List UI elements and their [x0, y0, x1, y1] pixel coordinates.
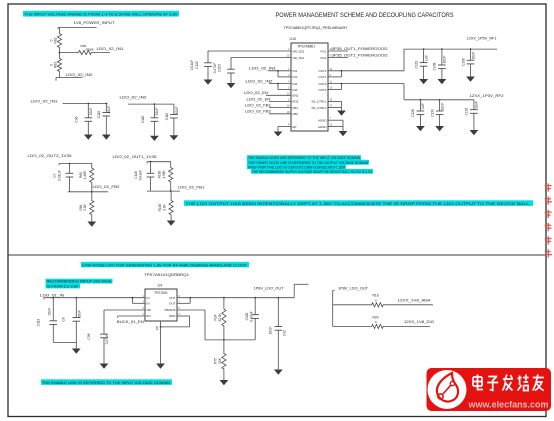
- svg-text:12XX_1V8_DIG: 12XX_1V8_DIG: [404, 320, 434, 324]
- svg-text:3P35_OUT1_POWERGOOD: 3P35_OUT1_POWERGOOD: [332, 47, 389, 51]
- wire 12XX_1P5V_RF1 bus: [404, 48, 497, 50]
- svg-text:LDO_02_IN1: LDO_02_IN1: [249, 67, 276, 71]
- ground SS_CTRL: [341, 108, 343, 111]
- svg-text:R189: R189: [158, 170, 162, 178]
- svg-text:PG1: PG1: [320, 49, 326, 53]
- svg-text:14: 14: [330, 68, 333, 71]
- ground input caps: [75, 342, 77, 348]
- svg-text:0: 0: [49, 39, 53, 41]
- wire LDO_01_IN: [44, 297, 145, 299]
- capacitor C118: [150, 162, 152, 174]
- svg-text:C128: C128: [411, 109, 415, 117]
- svg-text:LDO_02_FB1: LDO_02_FB1: [245, 104, 271, 108]
- svg-text:EN: EN: [147, 314, 151, 318]
- svg-text:0.01UF: 0.01UF: [190, 60, 194, 71]
- wire SS_CTRL2: [328, 107, 342, 109]
- svg-text:IS FROM 2.2-3.6V: IS FROM 2.2-3.6V: [47, 285, 80, 289]
- note: LDO output kept at 1.35V (cyan highlight): [184, 200, 533, 206]
- svg-text:C116: C116: [141, 116, 145, 124]
- svg-text:10UF: 10UF: [471, 52, 475, 60]
- svg-text:12XX_1P5V_RF1: 12XX_1P5V_RF1: [467, 37, 497, 41]
- resistor R59: [78, 50, 93, 54]
- op-amp U10 body: [291, 43, 328, 131]
- svg-text:15: 15: [287, 55, 290, 58]
- svg-text:LDO_01_IN: LDO_01_IN: [40, 293, 65, 297]
- svg-text:8: 8: [330, 74, 332, 77]
- ground C132: [473, 126, 475, 130]
- wire IN1 pin1: [269, 70, 292, 72]
- svg-text:10UF: 10UF: [175, 107, 179, 115]
- note: recommended supply voltage (cyan highlight): [251, 169, 373, 174]
- svg-text:LDO_02_IN2: LDO_02_IN2: [246, 80, 273, 84]
- svg-text:0.47UF: 0.47UF: [105, 334, 109, 345]
- wire OUT1 join: [328, 76, 342, 78]
- svg-text:TPS7A9101QDRBRQ1: TPS7A9101QDRBRQ1: [144, 273, 189, 277]
- svg-text:22UF: 22UF: [47, 308, 51, 316]
- svg-text:THE LDO OUTPUT HAS BEEN INTENT: THE LDO OUTPUT HAS BEEN INTENTIONALLY KE…: [186, 202, 531, 206]
- svg-text:IN1: IN1: [293, 75, 298, 79]
- wire LDO_02_IN1 stub: [93, 52, 111, 54]
- svg-text:17: 17: [330, 105, 333, 108]
- wire ANA left: [333, 304, 371, 306]
- wire AGND1: [328, 119, 343, 121]
- resistor R64: [90, 192, 94, 222]
- svg-text:6: 6: [288, 98, 290, 101]
- svg-text:LDO_02_FB2: LDO_02_FB2: [93, 185, 120, 189]
- svg-text:C132: C132: [465, 107, 469, 115]
- wire FB/SNS: [177, 309, 205, 311]
- svg-text:LDO_02_EN: LDO_02_EN: [244, 91, 268, 95]
- wire 1V8_POWER_INPUT: [58, 27, 97, 29]
- svg-text:THE ENABLE LINES ARE REFERRED: THE ENABLE LINES ARE REFERRED TO THE INP…: [248, 156, 360, 160]
- svg-text:R20: R20: [373, 315, 379, 319]
- svg-text:5: 5: [288, 87, 290, 90]
- svg-text:1.96K: 1.96K: [83, 170, 87, 179]
- resistor R20: [371, 324, 385, 328]
- svg-text:1UF: 1UF: [421, 103, 425, 109]
- ground C129: [423, 76, 425, 79]
- ground R75: [223, 379, 225, 381]
- wire FB1: [269, 107, 291, 109]
- wire PG1: [328, 50, 348, 52]
- svg-text:R59: R59: [81, 44, 87, 48]
- svg-text:TPS7A8801QRTJRQ1_PRELIMINARY: TPS7A8801QRTJRQ1_PRELIMINARY: [284, 26, 349, 30]
- svg-text:IN2: IN2: [293, 88, 298, 92]
- ground R190: [170, 220, 172, 222]
- svg-text:3P35_OUT2_POWERGOOD: 3P35_OUT2_POWERGOOD: [332, 53, 389, 57]
- svg-text:10: 10: [330, 87, 333, 90]
- capacitor C116: [153, 104, 155, 118]
- ground C98: [103, 363, 105, 365]
- wire NR_SS2: [208, 50, 291, 52]
- wire LDO_02_IN1 caps: [63, 103, 108, 105]
- resistor R60: [90, 164, 94, 192]
- svg-text:C129: C129: [414, 60, 418, 68]
- wire IN2 pin4: [269, 83, 291, 85]
- svg-text:C7: C7: [53, 173, 57, 177]
- wire AGND2: [328, 126, 343, 128]
- wire EN1: [266, 94, 291, 96]
- svg-text:0.47UF: 0.47UF: [249, 311, 253, 322]
- svg-text:R75: R75: [214, 358, 218, 364]
- capacitor C138: [441, 49, 443, 65]
- svg-text:2.0K: 2.0K: [83, 203, 87, 210]
- wire U4 IN2 join: [131, 298, 133, 304]
- svg-text:R24: R24: [214, 314, 218, 320]
- svg-text:7: 7: [330, 117, 332, 120]
- svg-text:1P8V_LDO_OUT: 1P8V_LDO_OUT: [338, 286, 369, 290]
- capacitor C98: [103, 333, 105, 335]
- ground EP: [277, 131, 279, 133]
- capacitor C122: [207, 51, 209, 63]
- svg-text:THE POWER GOOD LINE IS REFERRE: THE POWER GOOD LINE IS REFERRED TO THE O…: [248, 161, 368, 165]
- svg-text:SS_CTRL1: SS_CTRL1: [311, 100, 327, 104]
- wire EN2: [269, 100, 291, 102]
- svg-text:0.47UF: 0.47UF: [213, 63, 217, 74]
- resistor R63: [57, 53, 61, 78]
- svg-text:0: 0: [375, 299, 377, 303]
- note: input voltage range (cyan highlight): [23, 11, 179, 17]
- wire NR_SS1: [231, 57, 291, 59]
- wire GND route: [177, 315, 190, 317]
- ground C123: [230, 82, 232, 84]
- wire EP stem: [160, 321, 162, 364]
- svg-text:0R008: 0R008: [86, 48, 94, 52]
- resistor R62: [57, 28, 61, 53]
- svg-text:16: 16: [287, 105, 290, 108]
- svg-text:LDO_02_FB2: LDO_02_FB2: [245, 110, 271, 114]
- watermark red box: [427, 368, 552, 411]
- svg-text:U10: U10: [290, 37, 297, 41]
- svg-text:LDO_02_EN: LDO_02_EN: [247, 97, 271, 101]
- svg-text:POWER MANAGEMENT SCHEME AND DE: POWER MANAGEMENT SCHEME AND DECOUPLING C…: [276, 12, 454, 19]
- ground C128: [419, 123, 421, 127]
- wire OUT join: [189, 298, 191, 304]
- svg-text:10K: 10K: [218, 357, 222, 364]
- wire to R59: [60, 52, 78, 54]
- wire FB junction rail: [205, 339, 255, 341]
- wire FB2: [269, 113, 291, 115]
- svg-text:R190: R190: [158, 203, 162, 211]
- capacitor C119: [173, 104, 175, 114]
- section divider line: [8, 254, 546, 256]
- note: 2.2-3.6V (cyan highlight): [46, 284, 81, 289]
- svg-text:OUT: OUT: [169, 302, 176, 306]
- svg-text:OUT1: OUT1: [318, 69, 326, 73]
- svg-text:IN: IN: [147, 302, 150, 306]
- resistor R18: [371, 303, 385, 307]
- svg-text:C122: C122: [195, 61, 199, 69]
- svg-text:EP: EP: [293, 125, 297, 129]
- wire EN (U4): [118, 315, 145, 317]
- svg-text:R64: R64: [79, 204, 83, 210]
- capacitor C182: [254, 298, 256, 315]
- svg-text:2: 2: [288, 48, 290, 51]
- svg-text:52.3K: 52.3K: [218, 312, 222, 321]
- svg-text:RECOMMENDED INPUT VOLTAGE: RECOMMENDED INPUT VOLTAGE: [47, 280, 113, 284]
- svg-text:C123: C123: [218, 64, 222, 72]
- ground C138: [441, 76, 443, 79]
- capacitor C129: [423, 49, 425, 63]
- svg-text:OUT: OUT: [169, 296, 176, 300]
- wire LDO_02_IN2: [56, 77, 83, 79]
- wire OUT2 bottom: [68, 191, 108, 193]
- svg-text:LDO_02_IN2: LDO_02_IN2: [120, 96, 147, 100]
- wire input cap rail: [53, 341, 76, 343]
- svg-text:12: 12: [330, 124, 333, 127]
- note: low noise LDO (cyan highlight): [81, 262, 249, 267]
- svg-text:VREF FOR THE LDO IS 0.8V.0.8*(: VREF FOR THE LDO IS 0.8V.0.8*(1.96K+2.0K…: [248, 165, 346, 169]
- note: enable lines referenced (cyan highlight): [247, 155, 361, 160]
- svg-text:1.96K: 1.96K: [162, 169, 166, 178]
- svg-text:C115: C115: [97, 111, 101, 119]
- svg-text:NR: NR: [147, 308, 152, 312]
- svg-text:LDO_02_OUT1_1V35: LDO_02_OUT1_1V35: [113, 155, 157, 159]
- svg-text:LDO_02_OUT2_1V35: LDO_02_OUT2_1V35: [28, 154, 72, 158]
- svg-text:LDO_02_FB1: LDO_02_FB1: [178, 185, 205, 189]
- wire OUT1 bottom: [147, 190, 180, 192]
- svg-text:C96: C96: [75, 116, 79, 122]
- ground C115: [105, 131, 107, 135]
- svg-text:1V8_POWER_INPUT: 1V8_POWER_INPUT: [74, 21, 116, 25]
- ground C92: [277, 369, 279, 371]
- resistor R24: [222, 298, 226, 340]
- op-amp U4 body: [145, 289, 177, 321]
- watermark vertical text right edge: [545, 185, 552, 186]
- ground EP (U4): [160, 363, 162, 365]
- svg-text:FB1: FB1: [293, 106, 299, 110]
- svg-text:U4: U4: [158, 284, 163, 288]
- ground C139: [439, 123, 441, 127]
- capacitor C139: [439, 100, 441, 111]
- wire ANA right: [384, 304, 433, 306]
- svg-text:EP: EP: [155, 326, 159, 330]
- svg-text:LDO_02_IN2: LDO_02_IN2: [66, 73, 93, 77]
- svg-text:P: P: [288, 124, 290, 127]
- capacitor C92: [277, 298, 279, 327]
- wire DIG right: [384, 325, 430, 327]
- svg-text:EN1: EN1: [293, 94, 299, 98]
- svg-text:10UF: 10UF: [475, 101, 479, 109]
- watermark logo circle: [428, 370, 467, 409]
- svg-text:AGND: AGND: [318, 119, 328, 123]
- resistor R189: [169, 162, 173, 191]
- wire SS_CTRL1: [328, 100, 342, 102]
- svg-text:FB2: FB2: [293, 112, 299, 116]
- svg-text:C98: C98: [87, 333, 91, 339]
- svg-text:R18: R18: [373, 294, 379, 298]
- note: vref formula (cyan highlight): [247, 164, 346, 169]
- svg-text:22UF: 22UF: [89, 108, 93, 116]
- svg-text:THE RECOMMENDED SUPPLY VOLTAGE: THE RECOMMENDED SUPPLY VOLTAGE NEAR THE …: [252, 170, 373, 174]
- ground R64: [91, 221, 93, 223]
- svg-text:C118: C118: [134, 171, 138, 179]
- svg-text:R63: R63: [53, 62, 57, 68]
- svg-text:C119: C119: [165, 113, 169, 121]
- watermark chinese characters: [473, 375, 483, 390]
- svg-text:BUCK_01_EN: BUCK_01_EN: [117, 320, 144, 324]
- svg-text:LOW NOISE LDO FOR GENERATING 1: LOW NOISE LDO FOR GENERATING 1.8V FOR RF…: [82, 263, 248, 267]
- wire PG2: [328, 57, 348, 59]
- svg-text:20: 20: [287, 92, 290, 95]
- svg-text:10UF: 10UF: [443, 56, 447, 64]
- wire IN2 pin5 join: [277, 84, 279, 90]
- svg-text:TPS7A8801: TPS7A8801: [297, 44, 315, 48]
- wire 12XX_1P3V_RF2 bus: [404, 99, 474, 101]
- svg-text:18: 18: [287, 111, 290, 114]
- svg-text:10UF: 10UF: [77, 310, 81, 318]
- ground C116: [153, 132, 155, 136]
- svg-text:C139: C139: [430, 109, 434, 117]
- svg-text:4: 4: [288, 81, 290, 84]
- capacitor C128: [419, 100, 421, 111]
- resistor R75: [222, 340, 226, 379]
- ground AGND: [342, 127, 344, 132]
- svg-text:www.elecfans.com: www.elecfans.com: [468, 400, 549, 410]
- svg-text:1UF: 1UF: [424, 55, 428, 61]
- svg-text:2.0K: 2.0K: [163, 203, 167, 210]
- svg-text:10UF: 10UF: [440, 103, 444, 111]
- svg-text:10UF: 10UF: [107, 106, 111, 114]
- svg-text:NR_SS1: NR_SS1: [293, 56, 305, 60]
- capacitor C8: [75, 298, 77, 318]
- wire OUT2 join: [328, 89, 342, 91]
- svg-text:TPS7A91: TPS7A91: [154, 291, 168, 295]
- svg-text:12XX_1V8_ANA: 12XX_1V8_ANA: [398, 298, 432, 302]
- svg-text:IN2: IN2: [293, 82, 298, 86]
- svg-text:THE INPUT VOLTAGE RANGE IS FRO: THE INPUT VOLTAGE RANGE IS FROM 1.4 TO 6…: [25, 13, 179, 17]
- wire OUT rail: [177, 297, 294, 299]
- svg-text:0: 0: [49, 64, 53, 66]
- svg-text:R62: R62: [53, 37, 57, 43]
- svg-text:22UF: 22UF: [155, 108, 159, 116]
- ground C122: [207, 79, 209, 81]
- svg-text:C8: C8: [61, 317, 65, 321]
- svg-text:IN: IN: [147, 296, 150, 300]
- capacitor C7: [69, 164, 71, 174]
- ground C96: [87, 131, 89, 135]
- svg-text:GND: GND: [169, 314, 177, 318]
- svg-text:AGND: AGND: [318, 125, 328, 129]
- svg-text:IN1: IN1: [293, 69, 298, 73]
- wire LDO_02_IN2 caps: [128, 103, 174, 105]
- svg-text:0: 0: [375, 320, 377, 324]
- wire EP: [278, 126, 291, 128]
- svg-text:OUT1: OUT1: [318, 75, 326, 79]
- svg-text:NR_SS2: NR_SS2: [293, 49, 305, 53]
- wire OUT2 top: [59, 163, 92, 165]
- svg-text:C113: C113: [36, 319, 40, 327]
- svg-text:C92: C92: [282, 330, 286, 336]
- wire DIG left: [333, 325, 371, 327]
- svg-text:THE ENABLE LINE IS REFERRED TO: THE ENABLE LINE IS REFERRED TO THE INPUT…: [42, 381, 170, 385]
- svg-text:0.01UF: 0.01UF: [139, 170, 143, 181]
- svg-text:LDO_02_IN1: LDO_02_IN1: [97, 47, 124, 51]
- svg-text:C138: C138: [433, 62, 437, 70]
- svg-text:3: 3: [288, 74, 290, 77]
- wire fanout stem: [332, 291, 334, 327]
- svg-text:PG2: PG2: [320, 56, 326, 60]
- wire OUT1 rail: [328, 70, 404, 72]
- resistor R190: [169, 191, 173, 220]
- svg-text:12XX_1P3V_RF2: 12XX_1P3V_RF2: [470, 94, 504, 98]
- svg-text:SS_CTRL2: SS_CTRL2: [311, 106, 327, 110]
- svg-text:FB/SNS: FB/SNS: [165, 308, 176, 312]
- ground C130: [470, 74, 472, 77]
- note: power good line referenced (cyan highlight): [247, 160, 369, 165]
- wire NR: [104, 309, 145, 311]
- capacitor C130: [470, 49, 472, 60]
- svg-text:R60: R60: [79, 172, 83, 178]
- svg-text:0.01UF: 0.01UF: [58, 170, 62, 181]
- capacitor C115: [105, 104, 107, 113]
- ground C119: [173, 132, 175, 135]
- wire 1P8V_LDO_OUT riser: [293, 284, 295, 297]
- capacitor C123: [230, 58, 232, 70]
- wire IN1 pin3 join: [277, 71, 279, 77]
- note: enable line referenced (cyan highlight): [41, 379, 172, 385]
- svg-text:19: 19: [330, 98, 333, 101]
- svg-text:LDO_02_IN1: LDO_02_IN1: [31, 100, 58, 104]
- svg-text:11: 11: [330, 81, 333, 84]
- capacitor C113: [52, 298, 54, 321]
- note: recommended input voltage (cyan highlight): [46, 279, 113, 284]
- svg-text:1P8V_LDO_OUT: 1P8V_LDO_OUT: [254, 286, 285, 290]
- wire OUT2 rail: [328, 83, 404, 85]
- capacitor C96: [87, 104, 89, 118]
- svg-text:OUT2: OUT2: [318, 88, 326, 92]
- svg-text:10UF: 10UF: [268, 327, 272, 335]
- svg-text:C130: C130: [461, 58, 465, 66]
- capacitor C132: [473, 100, 475, 110]
- wire OUT1 top: [147, 161, 171, 163]
- svg-text:OUT2: OUT2: [318, 82, 326, 86]
- svg-text:1: 1: [288, 68, 290, 71]
- svg-text:EN2: EN2: [293, 100, 299, 104]
